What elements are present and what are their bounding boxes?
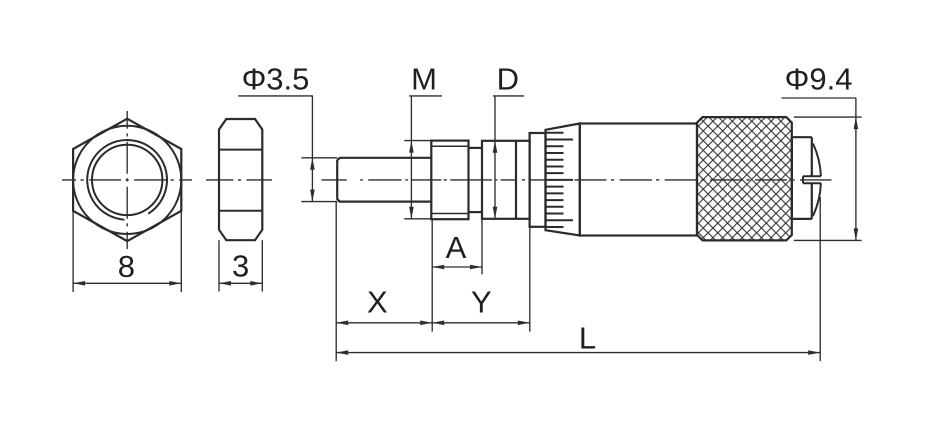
svg-text:3: 3 bbox=[232, 249, 249, 284]
svg-text:X: X bbox=[367, 284, 388, 319]
svg-text:D: D bbox=[497, 62, 519, 97]
svg-text:M: M bbox=[411, 62, 437, 97]
svg-text:L: L bbox=[579, 321, 596, 356]
svg-text:Y: Y bbox=[471, 284, 492, 319]
svg-text:A: A bbox=[446, 230, 467, 265]
svg-text:Φ9.4: Φ9.4 bbox=[785, 62, 853, 97]
svg-text:Φ3.5: Φ3.5 bbox=[242, 62, 310, 97]
svg-text:8: 8 bbox=[118, 249, 135, 284]
